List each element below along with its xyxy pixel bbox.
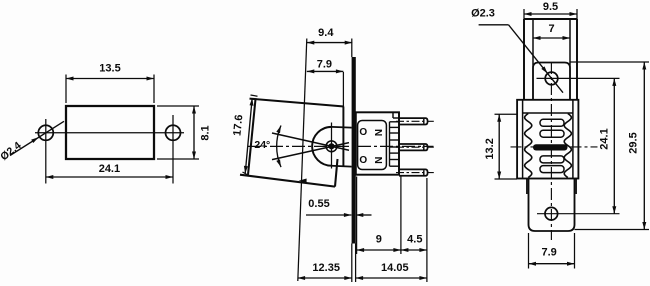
svg-text:0.55: 0.55 — [308, 198, 329, 210]
svg-text:24.1: 24.1 — [598, 128, 610, 149]
svg-text:N: N — [372, 157, 383, 164]
svg-text:8.1: 8.1 — [199, 125, 211, 140]
svg-text:24°: 24° — [254, 139, 270, 151]
svg-text:O: O — [359, 155, 367, 166]
svg-text:13.5: 13.5 — [99, 62, 120, 74]
svg-text:7.9: 7.9 — [317, 59, 332, 71]
svg-text:14.05: 14.05 — [381, 262, 409, 274]
svg-text:17.6: 17.6 — [231, 114, 245, 136]
svg-text:9: 9 — [376, 233, 382, 245]
svg-text:24.1: 24.1 — [99, 163, 120, 175]
svg-text:7.9: 7.9 — [541, 246, 556, 258]
svg-text:4.5: 4.5 — [407, 233, 422, 245]
svg-text:12.35: 12.35 — [312, 262, 340, 274]
svg-text:O: O — [359, 127, 367, 138]
svg-text:7: 7 — [548, 23, 554, 35]
svg-text:9.4: 9.4 — [318, 27, 334, 39]
svg-text:Ø2.3: Ø2.3 — [471, 7, 495, 19]
svg-text:N: N — [372, 129, 383, 136]
svg-text:9.5: 9.5 — [543, 1, 558, 13]
svg-text:13.2: 13.2 — [484, 138, 496, 159]
svg-text:29.5: 29.5 — [628, 132, 640, 153]
